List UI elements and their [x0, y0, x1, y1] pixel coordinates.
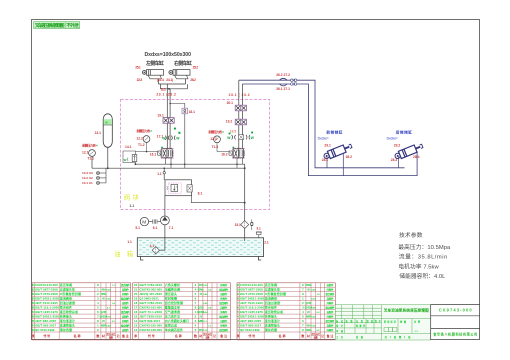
svg-text:CX9743-210-000: CX9743-210-000: [240, 283, 263, 287]
svg-text:CX9743-108-000: CX9743-108-000: [139, 328, 162, 332]
tank hatch: [139, 240, 262, 254]
svg-text:24.1(: 24.1(: [166, 78, 174, 82]
svg-text:组合阀件: 组合阀件: [326, 306, 335, 310]
directional valve 16.2: [221, 147, 245, 159]
svg-text:T1.1: T1.1: [87, 157, 94, 161]
14.1 tail to L1: [134, 163, 136, 165]
svg-text:28.2: 28.2: [346, 155, 353, 159]
svg-text:储能器容积：4.0L: 储能器容积：4.0L: [399, 272, 446, 280]
svg-text:23.1 ( 23.2: 23.1 ( 23.2: [229, 93, 250, 97]
svg-text:过渡接头体: 过渡接头体: [60, 288, 75, 292]
svg-text:单向阀芯组件: 单向阀芯组件: [165, 328, 183, 332]
svg-text:1.1: 1.1: [127, 240, 132, 244]
title block green grid: [335, 305, 430, 340]
svg-text:自制件: 自制件: [220, 292, 227, 296]
svg-text:组合阀件: 组合阀件: [121, 323, 130, 327]
parts table group 2: [133, 283, 231, 340]
svg-text:18: 18: [134, 301, 138, 305]
svg-text:Q235: Q235: [198, 307, 205, 310]
svg-text:18.5: 18.5: [230, 129, 236, 133]
svg-text:M: M: [142, 220, 146, 226]
lift cylinder left (25.1): [142, 70, 163, 79]
svg-text:CX9743-302-000: CX9743-302-000: [139, 288, 162, 292]
svg-text:空气滤清器: 空气滤清器: [165, 310, 180, 314]
valve 20.1: [235, 105, 246, 111]
svg-text:Q235: Q235: [101, 311, 108, 314]
svg-text:液压软管总成: 液压软管总成: [60, 310, 78, 314]
svg-text:名 称: 名 称: [74, 333, 81, 338]
svg-text:GB/T 9877-2008: GB/T 9877-2008: [35, 288, 58, 292]
front tilt cylinder 29.1: [323, 142, 353, 160]
svg-text:QJ 2963-2021: QJ 2963-2021: [139, 297, 159, 301]
svg-text:19.2: 19.2: [226, 119, 233, 123]
hose humps 26.x: [280, 78, 288, 80]
directional valve 16.1: [150, 147, 174, 159]
svg-text:组合阀件: 组合阀件: [121, 283, 130, 287]
drain wire to return: [192, 196, 245, 203]
svg-text:代 号: 代 号: [247, 333, 255, 338]
svg-text:蓄能器支架: 蓄能器支架: [165, 306, 180, 310]
svg-text:16.2: 16.2: [221, 152, 228, 156]
svg-text:自制件: 自制件: [327, 323, 334, 327]
svg-text:外购件: 外购件: [122, 319, 129, 323]
svg-text:过渡接头体: 过渡接头体: [265, 288, 280, 292]
svg-text:外购件: 外购件: [122, 306, 129, 310]
svg-text:CX9743-101-000: CX9743-101-000: [139, 306, 162, 310]
svg-text:自制件: 自制件: [122, 288, 129, 292]
svg-text:叉车双油泵系统液压原理图: 叉车双油泵系统液压原理图: [383, 308, 429, 313]
breather 2.1: [258, 235, 260, 238]
svg-text:JB/ZQ 445-2006: JB/ZQ 445-2006: [139, 292, 162, 296]
svg-text:液压软管总成: 液压软管总成: [265, 310, 283, 314]
svg-text:高压球阀: 高压球阀: [60, 283, 72, 287]
svg-text:序: 序: [133, 333, 137, 338]
svg-text:快换接头: 快换接头: [265, 314, 277, 318]
svg-text:数: 数: [300, 333, 304, 338]
svg-text:19.1: 19.1: [157, 114, 164, 118]
svg-text:28.4: 28.4: [413, 155, 420, 159]
14.1 pilot line to 16.1: [135, 151, 157, 153]
svg-text:3.1: 3.1: [256, 226, 261, 230]
check valve 18.1: [170, 104, 185, 109]
svg-text:N: N: [105, 121, 107, 125]
pump discharge wire: [164, 196, 166, 216]
svg-text:14: 14: [134, 319, 138, 323]
relief block 8.1: [165, 180, 192, 196]
coupling 6.1: [149, 221, 161, 223]
svg-text:25.1: 25.1: [135, 66, 141, 70]
lift cylinder right (25.2): [169, 70, 190, 79]
tank feet: [141, 257, 262, 261]
svg-text:直通管接头: 直通管接头: [60, 323, 75, 327]
svg-text:22: 22: [134, 283, 138, 287]
parts table group 1: [31, 283, 131, 340]
svg-text:钢丝挡圈: 钢丝挡圈: [264, 328, 277, 332]
svg-text:JB/T 7940-1995: JB/T 7940-1995: [35, 301, 58, 305]
svg-text:13: 13: [134, 323, 138, 327]
svg-text:不外泄: 不外泄: [66, 22, 79, 29]
svg-text:组合阀件: 组合阀件: [326, 292, 335, 296]
pump suction wire: [159, 225, 165, 250]
bus line L2: [92, 167, 245, 169]
svg-text:电磁换向阀: 电磁换向阀: [165, 288, 180, 292]
svg-text:21: 21: [134, 288, 138, 292]
svg-text:29.2: 29.2: [394, 144, 401, 148]
svg-text:#: #: [222, 130, 224, 134]
accumulator wire: [107, 147, 109, 168]
svg-text:GB/T 893-2017: GB/T 893-2017: [240, 323, 261, 327]
svg-text:组合阀件: 组合阀件: [219, 328, 228, 332]
svg-text:15: 15: [134, 314, 138, 318]
svg-text:耐震压力表: 耐震压力表: [137, 128, 151, 133]
svg-text:26.2 27.2: 26.2 27.2: [276, 73, 290, 77]
svg-text:GB/T 893-2017: GB/T 893-2017: [139, 319, 160, 323]
svg-text:GB/T 119.1-2000: GB/T 119.1-2000: [240, 306, 264, 310]
svg-text:Dxdxs=: Dxdxs=: [387, 137, 398, 141]
svg-text:8.1: 8.1: [198, 191, 203, 195]
svg-text:自制件: 自制件: [327, 310, 334, 314]
svg-text:序: 序: [31, 333, 35, 338]
svg-text:名 称: 名 称: [279, 333, 286, 338]
pump 7.1: [161, 216, 170, 225]
rear tilt ports: [398, 156, 400, 168]
svg-text:14.1: 14.1: [125, 145, 132, 149]
svg-text:65Mn: 65Mn: [100, 293, 107, 296]
svg-text:12: 12: [134, 328, 138, 332]
svg-text:组合阀件: 组合阀件: [326, 319, 335, 323]
svg-text:外购件: 外购件: [220, 297, 227, 301]
svg-text:HG/T 2579-2008: HG/T 2579-2008: [35, 292, 58, 296]
svg-text:GB/T 3452.1-2005: GB/T 3452.1-2005: [240, 314, 264, 318]
svg-text:代 号: 代 号: [42, 333, 50, 338]
svg-text:记: 记: [117, 334, 120, 338]
svg-text:18.1: 18.1: [189, 110, 196, 114]
svg-text:13.1: 13.1: [95, 131, 102, 135]
svg-text:材: 材: [306, 334, 310, 338]
svg-text:备 注: 备 注: [219, 333, 227, 338]
svg-text:65Mn: 65Mn: [198, 289, 205, 292]
tilt circuit wire A: [239, 80, 405, 168]
svg-text:钢丝挡圈: 钢丝挡圈: [59, 328, 72, 332]
svg-text:#: #: [150, 129, 152, 133]
svg-text:CX9743-105-000: CX9743-105-000: [139, 323, 162, 327]
svg-text:22.3: 22.3: [137, 78, 143, 82]
svg-text:自制件: 自制件: [327, 283, 334, 287]
svg-text:外购件: 外购件: [327, 301, 334, 305]
suction filter 4.1: [152, 247, 159, 254]
accumulator 13.1: [103, 114, 112, 148]
svg-text:序: 序: [236, 333, 240, 338]
svg-text:测压接头: 测压接头: [165, 292, 177, 296]
svg-text:GB/T 5782-2016: GB/T 5782-2016: [139, 301, 162, 305]
svg-text:外购件: 外购件: [220, 323, 227, 327]
svg-text:管夹组件: 管夹组件: [264, 306, 277, 310]
bus line L1: [135, 163, 244, 165]
svg-text:数: 数: [95, 333, 99, 338]
svg-text:叉车液压系统原理图: 叉车液压系统原理图: [34, 22, 65, 29]
motor 5.1: [140, 217, 148, 225]
gauge 12.2: [143, 136, 150, 143]
svg-text:16.1: 16.1: [150, 152, 157, 156]
test point 10.2 X2: [100, 177, 106, 179]
technical parameters: [398, 231, 451, 280]
valve 16.1 tails: [166, 158, 171, 164]
svg-text:#: #: [96, 143, 98, 147]
svg-text:JB/T 966-2005: JB/T 966-2005: [35, 319, 56, 323]
svg-text:19: 19: [134, 297, 138, 301]
svg-text:自制件: 自制件: [327, 297, 334, 301]
title block right column: [431, 304, 480, 340]
svg-text:26.1 27.1: 26.1 27.1: [276, 87, 290, 91]
svg-text:耐震压力表: 耐震压力表: [209, 129, 223, 134]
left branch vertical wires: [167, 99, 170, 149]
svg-text:备 注: 备 注: [121, 333, 129, 338]
svg-text:GB/T 5783-2016: GB/T 5783-2016: [139, 283, 162, 287]
bus stubs: [171, 164, 237, 168]
rear tilt cylinder 29.2: [394, 142, 424, 160]
test point 10.1 X1: [100, 182, 106, 184]
svg-text:金华铁人机器科技有限公司: 金华铁人机器科技有限公司: [432, 332, 477, 337]
gauge 12.1: [89, 150, 96, 157]
svg-text:65Mn: 65Mn: [305, 329, 312, 332]
svg-text:外购件: 外购件: [327, 328, 334, 332]
svg-text:12.2: 12.2: [136, 137, 143, 141]
svg-text:25.2: 25.2: [193, 66, 199, 70]
svg-text:记: 记: [213, 334, 216, 338]
svg-text:外购件: 外购件: [220, 310, 227, 314]
svg-text:JB/T 966-2005: JB/T 966-2005: [240, 319, 261, 323]
svg-text:28.1: 28.1: [322, 158, 329, 162]
svg-text:Q235: Q235: [306, 302, 313, 305]
svg-text:Dxdxs=: Dxdxs=: [318, 137, 329, 141]
svg-text:10.2 X2: 10.2 X2: [82, 176, 93, 180]
svg-text:GB/T 3452.1-2005: GB/T 3452.1-2005: [35, 314, 59, 318]
svg-text:快换接头: 快换接头: [60, 314, 72, 318]
svg-text:材: 材: [101, 334, 105, 338]
svg-text:外购件: 外购件: [327, 314, 334, 318]
svg-text:11.1: 11.1: [161, 88, 166, 92]
svg-text:15.1: 15.1: [235, 223, 241, 227]
test point column: [105, 168, 107, 183]
cylinder port wires: [159, 79, 188, 100]
svg-text:QC 5312-1999: QC 5312-1999: [35, 328, 55, 332]
svg-text:Dxdxs=100x50x300: Dxdxs=100x50x300: [145, 52, 192, 58]
svg-text:GB/T 119.1-2000: GB/T 119.1-2000: [35, 306, 59, 310]
svg-text:10.3 X3: 10.3 X3: [82, 171, 93, 175]
svg-text:组合阀件: 组合阀件: [121, 310, 130, 314]
svg-text:20: 20: [134, 292, 138, 296]
svg-text:16: 16: [134, 310, 138, 314]
svg-text:内六角圆柱头螺钉: 内六角圆柱头螺钉: [165, 319, 189, 323]
svg-text:26.2: 26.2: [190, 78, 196, 82]
svg-text:GB/T 1235-1976: GB/T 1235-1976: [240, 310, 263, 314]
svg-text:管夹组件: 管夹组件: [59, 306, 72, 310]
svg-text:2.1: 2.1: [264, 241, 269, 245]
svg-text:耐震压力表: 耐震压力表: [82, 142, 96, 147]
svg-text:组合阀件: 组合阀件: [219, 301, 228, 305]
svg-text:阀块: 阀块: [124, 193, 140, 202]
junction port 1.1: [163, 168, 165, 180]
green drawing title tag: [34, 22, 80, 30]
title block small green texts: [335, 319, 421, 339]
svg-text:组合阀件: 组合阀件: [219, 314, 228, 318]
svg-text:5.1: 5.1: [135, 226, 140, 230]
svg-text:17: 17: [134, 306, 138, 310]
svg-text:外购件: 外购件: [327, 288, 334, 292]
svg-text:高压球阀: 高压球阀: [265, 283, 277, 287]
junction dot cylinder bus: [168, 88, 170, 90]
svg-text:代 号: 代 号: [147, 333, 155, 338]
svg-text:1.1: 1.1: [129, 204, 134, 208]
svg-text:JB/T 7938-2010: JB/T 7938-2010: [139, 314, 162, 318]
svg-text:名 称: 名 称: [175, 333, 182, 338]
svg-text:外购件: 外购件: [220, 283, 227, 287]
tilt circuit wire B: [242, 84, 417, 176]
right branch vertical wires: [239, 80, 243, 149]
svg-text:(22.4: (22.4: [157, 78, 164, 82]
svg-text:左侧车缸: 左侧车缸: [145, 60, 164, 67]
svg-text:流量：35.8L/min: 流量：35.8L/min: [399, 253, 448, 261]
svg-text:6.1: 6.1: [153, 226, 158, 230]
svg-text:材: 材: [198, 334, 202, 338]
svg-text:组合阀件: 组合阀件: [121, 297, 130, 301]
svg-text:记: 记: [321, 334, 324, 338]
svg-text:回油过滤器: 回油过滤器: [265, 301, 280, 305]
svg-text:软管总成: 软管总成: [165, 323, 177, 327]
svg-text:GB/T 893-2017: GB/T 893-2017: [35, 323, 56, 327]
wire 18.1 down: [184, 114, 186, 164]
valve 19.1: [163, 118, 174, 124]
svg-text:自制件: 自制件: [122, 328, 129, 332]
svg-text:QC 5312-1999: QC 5312-1999: [240, 328, 260, 332]
svg-text:W: W: [124, 158, 127, 162]
test point 10.3 X3: [100, 172, 106, 174]
svg-text:直通管接头: 直通管接头: [265, 323, 280, 327]
gauge 12.1 wire: [91, 156, 93, 168]
svg-text:组合密封垫圈: 组合密封垫圈: [165, 301, 183, 305]
svg-text:数: 数: [193, 333, 197, 338]
svg-text:外购件: 外购件: [122, 292, 129, 296]
svg-text:7.1: 7.1: [169, 226, 174, 230]
svg-text:GB/T 3452.1-2005: GB/T 3452.1-2005: [35, 297, 59, 301]
svg-text:20.1: 20.1: [227, 101, 234, 105]
svg-text:自制件: 自制件: [122, 301, 129, 305]
svg-text:右侧车缸: 右侧车缸: [173, 60, 192, 67]
valve 16.2 tails: [237, 158, 242, 164]
svg-text:CX9743-000: CX9743-000: [439, 308, 473, 313]
svg-text:溢流阀组: 溢流阀组: [60, 297, 72, 301]
svg-text:电机功率 7.5kw: 电机功率 7.5kw: [398, 262, 439, 270]
border frame: [32, 20, 480, 340]
svg-text:JB/T 7940-1995: JB/T 7940-1995: [240, 301, 263, 305]
svg-text:T1.2: T1.2: [138, 143, 145, 147]
svg-text:自制件: 自制件: [220, 319, 227, 323]
svg-text:12.3: 12.3: [210, 137, 217, 141]
svg-text:23.1 (23.2: 23.1 (23.2: [156, 92, 176, 96]
svg-text:4.1: 4.1: [150, 244, 155, 248]
gauge 12.3: [214, 136, 221, 143]
svg-text:CX9743-210-000: CX9743-210-000: [35, 283, 58, 287]
svg-text:O形橡胶密封圈: O形橡胶密封圈: [265, 292, 286, 296]
check valve 3.1: [250, 219, 253, 222]
svg-text:65Mn: 65Mn: [305, 284, 312, 287]
svg-text:自制件: 自制件: [220, 306, 227, 310]
svg-text:前倾倾缸: 前倾倾缸: [326, 130, 342, 135]
title block: [335, 305, 430, 340]
svg-text:技术参数: 技术参数: [399, 231, 423, 239]
svg-text:六角头螺栓: 六角头螺栓: [165, 283, 180, 287]
svg-text:10.1 X1: 10.1 X1: [82, 181, 93, 185]
svg-text:GB/T 9877-2008: GB/T 9877-2008: [240, 288, 263, 292]
svg-text:溢流阀组: 溢流阀组: [265, 297, 277, 301]
svg-text:GB/T 70.1-2008: GB/T 70.1-2008: [139, 310, 162, 314]
svg-text:密封垫圈: 密封垫圈: [164, 297, 177, 301]
svg-text:液位液温计: 液位液温计: [265, 319, 280, 323]
svg-text:组合阀件: 组合阀件: [219, 288, 228, 292]
svg-text:HG/T 2579-2008: HG/T 2579-2008: [240, 292, 263, 296]
svg-text:压力表开关: 压力表开关: [164, 314, 180, 318]
svg-text:1.1: 1.1: [157, 172, 162, 176]
valve 19.2: [235, 119, 246, 125]
manifold dashed box: [121, 99, 270, 209]
svg-text:O形橡胶密封圈: O形橡胶密封圈: [60, 292, 81, 296]
svg-text:自制件: 自制件: [122, 314, 129, 318]
tank 1.1: [137, 238, 263, 257]
svg-text:最高压力：10.5Mpa: 最高压力：10.5Mpa: [398, 243, 451, 251]
svg-text:后倾倾缸: 后倾倾缸: [396, 130, 412, 135]
svg-text:29.1: 29.1: [324, 144, 331, 148]
front tilt ports: [327, 153, 343, 176]
parts table group 3: [236, 283, 336, 340]
return filter 15.1: [244, 164, 246, 220]
svg-text:液位液温计: 液位液温计: [60, 319, 75, 323]
svg-text:12.1: 12.1: [82, 151, 89, 155]
svg-text:回油过滤器: 回油过滤器: [60, 301, 75, 305]
svg-text:备 注: 备 注: [326, 333, 334, 338]
svg-text:28.3: 28.3: [391, 158, 398, 162]
svg-text:GB/T 1235-1976: GB/T 1235-1976: [35, 310, 58, 314]
svg-text:GB/T 3452.1-2005: GB/T 3452.1-2005: [240, 297, 264, 301]
